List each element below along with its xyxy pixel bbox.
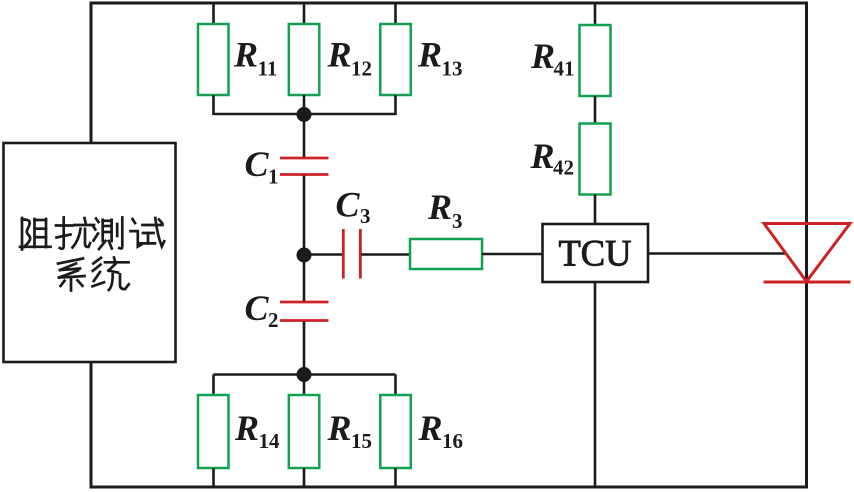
svg-text:R: R xyxy=(418,408,443,448)
wire R3 to TCU xyxy=(482,253,543,256)
wire C2 to node C xyxy=(303,322,306,375)
wire bottom bus xyxy=(214,373,396,376)
capacitor C2 xyxy=(280,301,329,304)
wire R41 to R42 xyxy=(594,96,597,124)
diode D1 triangle xyxy=(764,224,850,282)
wire node B to C2 xyxy=(303,255,306,302)
wire R14 bottom stub xyxy=(212,468,215,487)
svg-text:12: 12 xyxy=(351,57,372,81)
wire top stub to R13 xyxy=(394,3,397,24)
svg-text:R: R xyxy=(233,35,258,75)
node B junction dot xyxy=(297,248,312,263)
capacitor C1 xyxy=(280,157,329,160)
svg-text:R: R xyxy=(530,136,555,176)
svg-text:C: C xyxy=(245,288,270,328)
wire R11 bottom stub xyxy=(212,95,215,115)
svg-text:3: 3 xyxy=(452,209,463,233)
svg-text:13: 13 xyxy=(442,57,463,81)
svg-text:TCU: TCU xyxy=(559,233,632,274)
resistor R15 xyxy=(289,395,320,468)
svg-text:2: 2 xyxy=(268,308,279,332)
label char 系 xyxy=(58,259,85,291)
wire R12 bottom stub xyxy=(303,95,306,115)
label char 测 xyxy=(93,218,123,250)
wire R42 to TCU xyxy=(594,195,597,225)
wire R16 top stub xyxy=(394,375,397,396)
wire top stub to R12 xyxy=(303,3,306,24)
wire node B to C3 xyxy=(304,253,343,256)
svg-text:R: R xyxy=(234,408,259,448)
wire C1 to node B xyxy=(303,176,306,256)
svg-text:41: 41 xyxy=(554,57,575,81)
svg-text:15: 15 xyxy=(351,429,372,453)
resistor R41 xyxy=(580,25,611,96)
svg-text:R: R xyxy=(417,35,442,75)
wire TCU to diode D1 xyxy=(648,252,786,255)
svg-text:C: C xyxy=(245,144,270,184)
label char 阻 xyxy=(20,218,51,250)
wire TCU bottom xyxy=(594,282,597,487)
resistor R12 xyxy=(289,24,320,95)
svg-text:3: 3 xyxy=(360,204,371,228)
impedance test system box xyxy=(4,143,176,362)
label char 抗 xyxy=(56,218,94,249)
wire node A to C1 xyxy=(303,115,306,158)
wire R16 bottom stub xyxy=(394,468,397,487)
wire top bus xyxy=(214,113,396,116)
op-amp U1 TCU box xyxy=(543,224,649,282)
svg-text:42: 42 xyxy=(553,156,574,180)
resistor R3 xyxy=(410,239,482,269)
diode D1 cathode bar xyxy=(764,281,851,284)
resistor R11 xyxy=(198,24,229,95)
svg-text:R: R xyxy=(327,408,352,448)
wire C3 to R3 xyxy=(361,253,410,256)
svg-text:R: R xyxy=(530,36,555,76)
svg-text:R: R xyxy=(427,187,452,227)
svg-text:R: R xyxy=(327,35,352,75)
node C junction dot xyxy=(297,367,312,382)
capacitor C3 xyxy=(342,229,345,279)
svg-text:11: 11 xyxy=(258,57,278,81)
resistor R16 xyxy=(380,395,411,468)
svg-text:14: 14 xyxy=(259,429,281,453)
node A junction dot xyxy=(297,107,312,122)
label char 试 xyxy=(131,218,165,247)
svg-text:C: C xyxy=(336,185,361,225)
resistor R14 xyxy=(198,395,229,468)
wire R15 bottom stub xyxy=(303,468,306,487)
svg-text:1: 1 xyxy=(268,165,279,189)
label char 统 xyxy=(93,258,129,291)
wire R15 top stub xyxy=(303,375,306,396)
resistor R42 xyxy=(580,124,611,195)
wire R14 top stub xyxy=(212,375,215,396)
wire R13 bottom stub xyxy=(394,95,397,115)
wire top stub to R11 xyxy=(212,3,215,24)
resistor R13 xyxy=(380,24,411,95)
svg-text:16: 16 xyxy=(442,429,463,453)
wire top stub to R41 xyxy=(594,3,597,25)
